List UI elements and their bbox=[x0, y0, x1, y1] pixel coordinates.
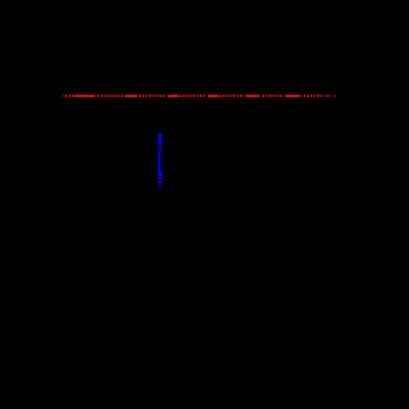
wire dash bbox=[158, 177, 162, 179]
wire dotted run 7 bbox=[304, 95, 325, 97]
wire dash bbox=[158, 140, 162, 143]
wire dash bbox=[158, 137, 162, 140]
wire faint first dot bbox=[62, 95, 63, 97]
wire dash pair bbox=[158, 153, 160, 155]
wire faint right dots bbox=[161, 158, 162, 159]
wire dotted run 3 bbox=[139, 95, 166, 97]
wire dot pair bbox=[158, 146, 160, 148]
wire solid dash 6 bbox=[285, 95, 301, 97]
wire dash bbox=[158, 134, 162, 136]
wire dash bbox=[158, 143, 162, 145]
wire dot pair bbox=[158, 150, 160, 151]
wire dotted run 5 bbox=[220, 95, 245, 97]
wire solid dash 2 bbox=[125, 95, 138, 97]
wire dash bbox=[158, 181, 162, 183]
wire dotted run 2 bbox=[98, 95, 124, 97]
wire solid left column bbox=[158, 157, 160, 171]
wire dark red end dash bbox=[325, 95, 331, 97]
wire dash bbox=[158, 184, 161, 186]
wire solid block bbox=[158, 171, 162, 176]
wire solid dash 5 bbox=[246, 95, 260, 97]
wire dot pair bbox=[158, 149, 160, 150]
wire dash pair bbox=[158, 155, 160, 157]
wire dark red end tip bbox=[333, 95, 336, 97]
wire dotted run 6 bbox=[263, 95, 284, 97]
node tip right bbox=[160, 134, 161, 135]
wire dotted run 1 bbox=[65, 95, 75, 97]
wire solid dash 1 bbox=[75, 95, 95, 97]
wire dotted run 4 bbox=[180, 95, 207, 97]
blue dashed vertical marker line (two overlapped dashed lines) bbox=[158, 134, 163, 186]
wire solid dash 3 bbox=[168, 95, 179, 97]
red dashed horizontal threshold line bbox=[62, 95, 324, 97]
node tip left bbox=[158, 134, 159, 135]
wire solid dash 4 bbox=[208, 95, 219, 97]
